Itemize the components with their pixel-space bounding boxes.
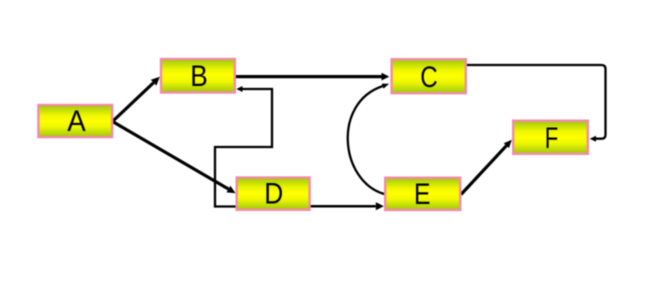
wire elbow arrow D to B xyxy=(215,86,272,207)
wire curved arrow E to C xyxy=(348,84,389,194)
wire arrow A to B xyxy=(113,77,160,121)
svg-text:E: E xyxy=(414,178,431,211)
box D xyxy=(237,178,310,211)
svg-text:C: C xyxy=(420,61,438,94)
svg-text:B: B xyxy=(190,60,208,93)
wire arrow A to D xyxy=(113,122,236,193)
box A xyxy=(38,105,112,138)
svg-text:A: A xyxy=(67,105,86,138)
wire arrow D to E xyxy=(310,202,384,210)
svg-text:F: F xyxy=(545,122,559,155)
box F xyxy=(513,121,588,155)
svg-text:D: D xyxy=(264,178,283,211)
box B xyxy=(161,59,235,93)
wire arrow E to F xyxy=(461,140,512,195)
wire arrow B to C xyxy=(236,73,389,81)
box C xyxy=(392,59,466,94)
box E xyxy=(385,178,460,211)
wire elbow arrow C to F xyxy=(467,65,606,142)
